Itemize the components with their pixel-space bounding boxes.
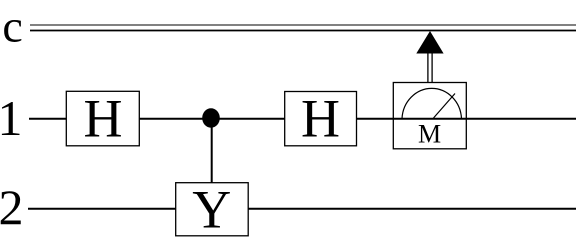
svg-text:Y: Y bbox=[192, 180, 231, 240]
svg-text:1: 1 bbox=[0, 90, 23, 146]
svg-text:c: c bbox=[2, 1, 22, 52]
svg-text:2: 2 bbox=[0, 179, 24, 235]
svg-text:H: H bbox=[84, 88, 123, 148]
svg-text:M: M bbox=[418, 120, 441, 149]
svg-text:H: H bbox=[301, 88, 340, 148]
